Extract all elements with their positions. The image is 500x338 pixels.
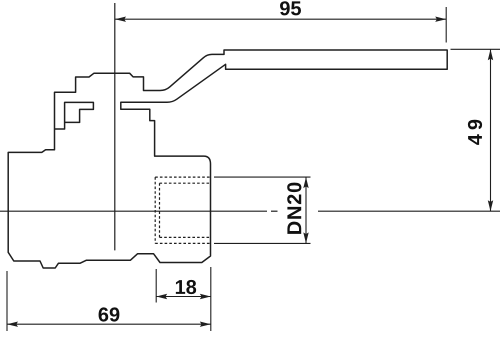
dim 69 text [99, 307, 120, 321]
dim 49 line [490, 49, 492, 211]
dim DN20 text [287, 183, 301, 234]
dim 95 text [280, 1, 301, 15]
packing gland interior steps left of stem [55, 102, 94, 129]
dim 95 right arrow [435, 17, 446, 22]
dim 69 left extension line [6, 271, 8, 331]
thread inner dashed top [160, 182, 211, 184]
dim 49 top extension line [451, 48, 500, 50]
dim 49 text [468, 120, 482, 145]
pipe horizontal centerline left segment [0, 210, 267, 212]
dim 95 left arrow [115, 17, 126, 22]
dim 18 / 69 shared right extension line [210, 267, 212, 331]
dim 18 text [176, 280, 196, 294]
dim 49 bottom arrow [488, 200, 493, 211]
dim DN20 bottom arrow [303, 232, 308, 243]
thread inner dashed bottom [160, 236, 211, 238]
dim 18 left arrow [156, 294, 167, 299]
dim 18 line [156, 296, 211, 298]
thread outer dashed left [154, 177, 156, 243]
pipe centerline right segment [318, 210, 500, 212]
thread outer dashed bottom [155, 242, 210, 244]
dim 49 top arrow [488, 49, 493, 60]
dim 95 line [115, 18, 446, 20]
dim DN20 top arrow [303, 177, 308, 188]
dim DN20 top extension line [214, 176, 311, 178]
thread inner dashed left [159, 183, 161, 237]
stem vertical centerline [114, 3, 116, 250]
dim 69 line [7, 323, 211, 325]
dim 69 right arrow [200, 322, 211, 327]
valve body and handle outline [8, 50, 447, 268]
dim 95 right extension line [445, 7, 447, 43]
dim DN20 line [305, 177, 307, 243]
pipe centerline short dash [271, 210, 278, 212]
dim 18 right arrow [200, 294, 211, 299]
dim 18 left extension line [155, 269, 157, 303]
thread outer dashed top [155, 176, 210, 178]
dim DN20 bottom extension line [214, 242, 311, 244]
dim 69 left arrow [7, 322, 18, 327]
